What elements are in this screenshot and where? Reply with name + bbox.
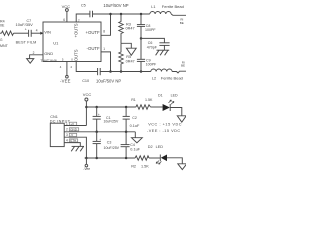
wire +V bbox=[64, 125, 86, 127]
svg-text:GND: GND bbox=[70, 128, 78, 132]
ground triangle D2 bbox=[178, 164, 187, 170]
svg-text:0R47: 0R47 bbox=[126, 60, 135, 64]
node C1 top bbox=[95, 106, 98, 109]
capacitor C9 bbox=[137, 38, 157, 71]
svg-text:R5: R5 bbox=[126, 55, 131, 59]
svg-text:MNT: MNT bbox=[0, 44, 9, 48]
wire R2 to D2 bbox=[149, 157, 160, 159]
LED D1 bbox=[158, 94, 178, 111]
wire -V to VEE rail bbox=[64, 137, 86, 158]
svg-text:-OUTF: -OUTF bbox=[87, 46, 101, 51]
wire branch to C6 bbox=[141, 38, 164, 42]
svg-text:470pF: 470pF bbox=[147, 45, 158, 49]
resistor R5 bbox=[119, 43, 135, 71]
wire bottom rail bbox=[101, 71, 151, 73]
svg-text:BEST FILM: BEST FILM bbox=[16, 41, 37, 45]
VCC power symbol lower bbox=[83, 92, 92, 101]
svg-text:ETH: ETH bbox=[70, 139, 76, 143]
svg-text:LED: LED bbox=[171, 94, 178, 98]
svg-text:2: 2 bbox=[33, 51, 35, 55]
-VEE power symbol bbox=[83, 164, 90, 171]
node C3 bottom bbox=[95, 157, 98, 160]
svg-text:THAT1646: THAT1646 bbox=[40, 59, 57, 63]
svg-text:10uF/50V NP: 10uF/50V NP bbox=[103, 3, 128, 8]
svg-text:10uF/25V: 10uF/25V bbox=[104, 120, 119, 124]
node VEE left bbox=[85, 157, 88, 160]
wire VEE symbol drop bbox=[85, 158, 87, 164]
inductor L2 Ferrite Bead bbox=[151, 69, 183, 80]
VEE power symbol bbox=[60, 75, 71, 83]
node bottom rail R5 bbox=[120, 70, 123, 73]
svg-text:Ferrite Bead: Ferrite Bead bbox=[161, 75, 183, 80]
capacitor C3 bbox=[93, 132, 120, 158]
wire C7 to U1 VIN bbox=[32, 32, 44, 34]
capacitor C5 bbox=[81, 3, 129, 17]
op-amp U1 THAT1646 body bbox=[43, 22, 101, 62]
ground triangle GND rail bbox=[132, 138, 143, 143]
svg-text:D2: D2 bbox=[148, 145, 153, 149]
wire +OUTF pin 8 to rail bbox=[101, 14, 111, 35]
node on rail at C8 bbox=[140, 13, 143, 16]
svg-text:Ferrite Bead: Ferrite Bead bbox=[162, 4, 184, 9]
wire R1 to D1 bbox=[151, 106, 163, 108]
wire -OUTF pin 1 to bottom rail bbox=[101, 52, 111, 72]
svg-text:VIN: VIN bbox=[44, 29, 51, 34]
svg-text:5: 5 bbox=[62, 58, 64, 62]
svg-text:10uF/50V NP: 10uF/50V NP bbox=[96, 78, 121, 83]
svg-text:U1: U1 bbox=[53, 41, 59, 46]
wire L2 to edge bbox=[172, 71, 186, 73]
svg-text:BE: BE bbox=[181, 64, 185, 68]
svg-text:0.1uF: 0.1uF bbox=[130, 124, 140, 128]
wire D1 to ground bbox=[170, 108, 181, 116]
svg-text:100PF: 100PF bbox=[146, 62, 157, 66]
svg-text:BE: BE bbox=[180, 21, 184, 25]
svg-text:+: + bbox=[98, 113, 100, 117]
svg-text:10uF/25V: 10uF/25V bbox=[104, 146, 120, 150]
svg-text:G: G bbox=[0, 38, 3, 42]
ground triangle D1 bbox=[177, 116, 186, 122]
pin 2 GND bbox=[66, 128, 79, 132]
node mid ladder bbox=[140, 37, 143, 40]
node C2 bottom bbox=[125, 131, 128, 134]
svg-text:4: 4 bbox=[66, 139, 68, 143]
svg-text:+: + bbox=[99, 138, 101, 142]
svg-text:100PF: 100PF bbox=[145, 28, 156, 32]
connector CN1 bbox=[50, 115, 71, 147]
svg-text:R2: R2 bbox=[131, 165, 136, 169]
ground triangle output divider bbox=[126, 48, 136, 55]
node C4 bottom bbox=[125, 157, 128, 160]
capacitor C4 bbox=[121, 132, 141, 158]
capacitor C10 bbox=[82, 68, 121, 83]
wire input left bbox=[0, 32, 2, 34]
svg-text:1.5K: 1.5K bbox=[141, 165, 149, 169]
svg-text:VCC : +15 VDC: VCC : +15 VDC bbox=[148, 123, 182, 127]
net fragment bottom right bbox=[181, 60, 185, 67]
svg-text:-VEE : -15 VDC: -VEE : -15 VDC bbox=[147, 129, 181, 133]
svg-text:2: 2 bbox=[66, 128, 68, 132]
svg-text:C10: C10 bbox=[82, 79, 89, 83]
svg-text:L1: L1 bbox=[151, 5, 155, 9]
node on rail at pin8 riser bbox=[109, 13, 112, 16]
svg-text:4: 4 bbox=[70, 65, 72, 69]
chassis ground ETH bbox=[71, 146, 84, 151]
wire mid junction to ground bbox=[121, 43, 131, 48]
svg-text:6: 6 bbox=[63, 18, 65, 22]
wire VEE pin down bbox=[66, 62, 68, 76]
svg-text:C5: C5 bbox=[81, 3, 86, 7]
wire ETH bbox=[64, 143, 80, 147]
svg-text:L2: L2 bbox=[152, 76, 156, 80]
svg-text:-V: -V bbox=[70, 133, 73, 137]
wire L1 to edge bbox=[171, 14, 186, 15]
capacitor C6 bbox=[147, 41, 170, 50]
ground triangle U1 GND bbox=[27, 59, 34, 64]
inductor L1 Ferrite Bead bbox=[150, 4, 184, 14]
svg-text:4: 4 bbox=[36, 28, 38, 32]
wire VCC to U1 pin 6 bbox=[66, 11, 68, 22]
resistor R4 bbox=[0, 19, 14, 35]
svg-text:8: 8 bbox=[103, 29, 105, 33]
wire R4 to C7 bbox=[14, 32, 29, 34]
svg-text:0.1uF: 0.1uF bbox=[130, 148, 140, 152]
svg-text:+OUTF: +OUTF bbox=[85, 30, 100, 35]
svg-text:+: + bbox=[25, 28, 27, 32]
capacitor C1 bbox=[93, 107, 119, 132]
svg-text:C3: C3 bbox=[107, 141, 112, 145]
svg-text:3: 3 bbox=[66, 133, 68, 137]
svg-text:D1: D1 bbox=[158, 94, 163, 98]
svg-text:VCC: VCC bbox=[83, 92, 92, 97]
wire +OUTS pin to rail bbox=[76, 14, 89, 22]
svg-text:10uF/35V: 10uF/35V bbox=[16, 22, 34, 27]
VIN arrow marker bbox=[40, 32, 43, 35]
resistor R1 bbox=[131, 98, 153, 109]
svg-text:LED: LED bbox=[156, 145, 164, 149]
svg-text:VCC: VCC bbox=[62, 4, 71, 9]
resistor R2 bbox=[131, 156, 149, 169]
wire top rail bbox=[93, 13, 150, 15]
node C2 top bbox=[125, 106, 128, 109]
svg-text:1: 1 bbox=[103, 47, 105, 51]
wire D2 to ground bbox=[167, 158, 182, 164]
VDC note text bbox=[147, 123, 182, 134]
capacitor C8 bbox=[137, 14, 156, 38]
node on rail at R3 bbox=[120, 13, 123, 16]
wire VEE rail bbox=[85, 157, 136, 159]
svg-text:C2: C2 bbox=[132, 116, 137, 120]
svg-text:+OUTS: +OUTS bbox=[74, 23, 79, 37]
wire GND to triangle bbox=[134, 132, 136, 138]
wire VCC rail bbox=[86, 106, 135, 108]
svg-text:0R47: 0R47 bbox=[126, 26, 135, 30]
svg-text:-OUTS: -OUTS bbox=[74, 49, 79, 62]
node bottom rail C9 bbox=[140, 70, 143, 73]
pin 1 +V bbox=[66, 122, 77, 126]
svg-text:-VEE: -VEE bbox=[60, 79, 71, 84]
svg-text:-Vee: -Vee bbox=[83, 167, 90, 171]
wire GND pin bbox=[30, 55, 43, 59]
capacitor C2 bbox=[123, 107, 140, 132]
node left text fragments bbox=[0, 38, 9, 48]
svg-text:0E: 0E bbox=[0, 24, 5, 28]
node bottom rail pin1 bbox=[109, 70, 112, 73]
wire VCC drop bbox=[85, 101, 87, 126]
pin 4 ETH bbox=[66, 139, 78, 143]
svg-text:C4: C4 bbox=[130, 143, 135, 147]
node vcc rail left bbox=[85, 106, 88, 109]
svg-text:GND: GND bbox=[44, 51, 53, 56]
svg-text:7: 7 bbox=[78, 19, 80, 23]
svg-text:4: 4 bbox=[60, 65, 62, 69]
pin 3 -V bbox=[66, 133, 77, 137]
chassis ground C6 bbox=[156, 50, 170, 55]
wire -OUTS pin to bottom rail bbox=[76, 62, 97, 72]
LED D2 bbox=[148, 145, 167, 164]
net fragment top right bbox=[180, 17, 184, 25]
wire GND rail bbox=[64, 131, 135, 133]
node C1 bottom bbox=[95, 131, 98, 134]
svg-text:C6: C6 bbox=[148, 41, 153, 45]
capacitor C7 bbox=[16, 19, 37, 45]
VCC power symbol bbox=[62, 4, 71, 11]
resistor R3 bbox=[119, 14, 135, 43]
svg-text:1.5K: 1.5K bbox=[145, 98, 153, 102]
svg-text:R1: R1 bbox=[131, 98, 136, 102]
